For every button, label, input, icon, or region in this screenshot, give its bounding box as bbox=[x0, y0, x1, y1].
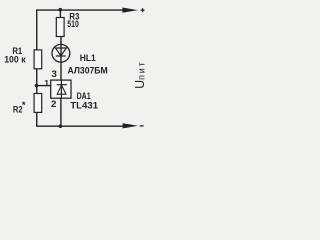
svg-text:3: 3 bbox=[52, 69, 57, 80]
node A (R1/R2 divider junction) bbox=[35, 84, 39, 88]
svg-text:TL431: TL431 bbox=[70, 101, 98, 111]
IC DA1 TL431 body bbox=[51, 80, 71, 98]
node top junction bbox=[58, 8, 62, 12]
wire left vertical (top rail to R1) bbox=[36, 9, 38, 50]
svg-text:Uпит: Uпит bbox=[133, 60, 147, 88]
wire R1 to junction A bbox=[36, 69, 38, 94]
DA1 internal symbol (cathode bar, diode, through lead) bbox=[57, 84, 67, 86]
LED HL1 bbox=[52, 44, 70, 62]
svg-text:100 к: 100 к bbox=[4, 55, 26, 65]
label - bbox=[140, 125, 144, 127]
resistor R1 bbox=[34, 50, 42, 69]
wire top junction to R3 bbox=[59, 10, 61, 18]
terminal arrow + (positive supply) bbox=[122, 8, 137, 13]
resistor R2 bbox=[34, 94, 42, 113]
wire junction A to DA1 pin 1 bbox=[37, 85, 51, 87]
wire top rail bbox=[36, 9, 126, 11]
wire R2 to bottom rail bbox=[37, 112, 126, 126]
terminal arrow - (negative supply) bbox=[123, 123, 138, 128]
svg-text:2: 2 bbox=[51, 99, 56, 110]
svg-text:510: 510 bbox=[67, 19, 79, 29]
wire R3 to DA1 through LED bbox=[60, 37, 62, 81]
label + bbox=[141, 8, 145, 12]
svg-text:HL1: HL1 bbox=[80, 53, 97, 64]
svg-text:1: 1 bbox=[44, 78, 49, 88]
svg-text:*: * bbox=[22, 100, 26, 111]
node bottom junction bbox=[59, 124, 63, 128]
wire DA1 pin 2 to bottom rail bbox=[60, 98, 62, 126]
svg-text:АЛ307БМ: АЛ307БМ bbox=[68, 65, 108, 76]
resistor R3 bbox=[56, 18, 64, 37]
